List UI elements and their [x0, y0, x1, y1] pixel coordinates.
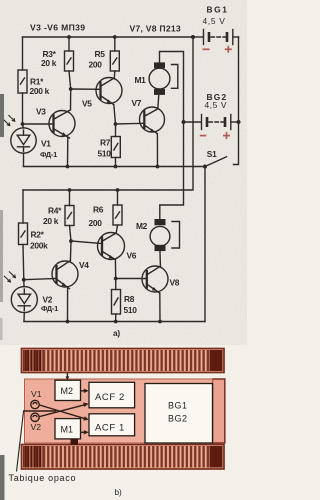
wire V8 emitter to rail — [159, 293, 161, 322]
svg-text:M2: M2 — [61, 386, 74, 396]
sight line V1 to ACF1 — [40, 405, 86, 419]
chassis right wall — [213, 379, 225, 443]
motor M2 — [155, 219, 166, 225]
polarity BG2 — [200, 132, 230, 139]
light arrows into V1 — [4, 120, 10, 126]
arrow M2 to ACF2 — [81, 390, 86, 392]
bracket M1 — [172, 65, 178, 89]
resistor R3 — [65, 51, 74, 71]
wire R1 to V1 — [22, 93, 25, 128]
node R5 top — [113, 35, 117, 39]
resistor R5 — [110, 51, 119, 71]
node R6 top — [116, 188, 120, 192]
photodiode V1 — [11, 128, 36, 153]
transistor V7 — [140, 107, 165, 132]
photodiode V1 lens — [31, 400, 39, 408]
svg-text:BG1: BG1 — [168, 401, 188, 411]
node V4 emitter rail — [66, 320, 70, 324]
wire V3 collector — [70, 89, 72, 110]
wire V2 to bottom rail — [23, 313, 25, 322]
wire left column channel 2 — [22, 190, 24, 223]
node R7 rail — [114, 165, 118, 169]
wire R2 to V2 — [23, 245, 24, 287]
node V4 collector / R4 / V6 base — [69, 239, 73, 243]
wire V6 base — [71, 241, 102, 244]
resistor R2 — [19, 223, 28, 245]
wire V8 collector to M2 — [159, 252, 161, 267]
wire V1 to bottom rail — [23, 153, 25, 166]
resistor R4 — [65, 206, 74, 226]
wire right column to S1 fixed contact — [234, 122, 239, 165]
resistor R7 — [111, 137, 120, 158]
svg-text:b): b) — [115, 488, 123, 497]
shaft arrow M2 — [66, 373, 68, 378]
wire V7 collector to M1 — [158, 95, 159, 109]
paper background — [0, 0, 247, 500]
wire V4 collector — [69, 241, 72, 261]
box M1 — [55, 419, 81, 439]
wire V7 base — [116, 122, 145, 125]
wire V3 base — [23, 123, 54, 125]
svg-text:M1: M1 — [61, 425, 74, 435]
svg-text:V1: V1 — [31, 389, 42, 399]
svg-text:Tabique opaco: Tabique opaco — [9, 473, 77, 483]
node V8 emitter rail — [158, 320, 162, 324]
pointer line tabique — [17, 412, 24, 472]
wire top rail channel 2 — [68, 188, 72, 192]
node V4 base tap — [22, 278, 26, 282]
wire V3 emitter to rail — [67, 137, 69, 166]
svg-text:V2: V2 — [31, 422, 42, 432]
node BG1 left — [191, 35, 195, 39]
wire right battery column — [238, 37, 240, 122]
box ACF2 — [89, 382, 135, 408]
node BG2 left / motors — [182, 120, 186, 124]
node V5 emitter / R7 / V7 base — [114, 122, 118, 126]
resistor R1 — [18, 70, 27, 93]
wire V6 emitter to node — [114, 260, 116, 279]
scan grain overlay — [0, 0, 247, 345]
wire R6 to V6 collector — [116, 225, 117, 233]
node BG2 right — [237, 120, 241, 124]
node R8 rail — [114, 320, 118, 324]
track band top — [22, 349, 225, 373]
wire BG1-left down to channel 2 rail — [23, 37, 193, 190]
wire V5 emitter to node — [114, 105, 116, 124]
battery BG2 — [184, 121, 201, 123]
track band bottom — [22, 445, 225, 470]
switch S1 — [203, 165, 207, 169]
node R3 top — [67, 35, 71, 39]
svg-text:ACF 2: ACF 2 — [95, 392, 125, 403]
shaft stub M1 — [71, 439, 79, 445]
opaque partition line — [23, 410, 56, 412]
resistor R6 — [113, 205, 122, 225]
svg-text:BG2: BG2 — [168, 414, 188, 424]
transistor V8 — [142, 266, 168, 292]
wire V4 base — [24, 279, 56, 280]
transistor V3 — [49, 111, 75, 137]
photodiode V2 lens — [31, 413, 39, 421]
wire M1 top to BG2 node — [160, 52, 184, 123]
wire V4 emitter to rail — [67, 287, 69, 321]
transistor V5 — [96, 78, 122, 104]
light arrows into V2 — [4, 276, 10, 282]
battery BG1 — [193, 36, 203, 38]
bracket M2 — [172, 222, 180, 249]
sight line V2 to ACF2 — [40, 405, 86, 417]
box BG1 BG2 — [145, 384, 213, 444]
transistor V4 — [52, 261, 78, 287]
polarity BG1 — [203, 46, 232, 53]
chassis base panel — [25, 379, 213, 443]
motor M1 — [154, 62, 165, 68]
wire V8 base — [116, 278, 147, 280]
arrow M1 to ACF1 — [81, 431, 86, 433]
transistor V6 — [98, 233, 125, 260]
node V3 base tap — [21, 122, 25, 126]
resistor R8 — [112, 290, 121, 315]
wire bottom rail channel 1 — [24, 166, 206, 168]
box ACF1 — [89, 414, 135, 436]
scan edge artifacts — [0, 94, 5, 500]
node V6 emitter / R8 / V8 base — [114, 277, 118, 281]
node V3 collector / R3 / V5 base — [69, 87, 73, 91]
wire V5 base — [71, 88, 100, 90]
wire BG2-left node down to M2 — [160, 122, 184, 219]
box M2 — [55, 380, 81, 400]
node V3 emitter rail — [66, 165, 70, 169]
node V7 emitter rail — [156, 165, 160, 169]
wire left column upper — [22, 37, 24, 70]
wire S1 down right side — [204, 167, 206, 322]
wire bottom rail channel 2 — [24, 321, 205, 323]
svg-text:ACF 1: ACF 1 — [95, 422, 125, 433]
wire R5 to V5 collector — [113, 71, 116, 78]
photodiode V2 — [11, 287, 37, 313]
wire top rail channel 1 — [23, 36, 194, 38]
wire V7 emitter to rail — [156, 134, 158, 167]
